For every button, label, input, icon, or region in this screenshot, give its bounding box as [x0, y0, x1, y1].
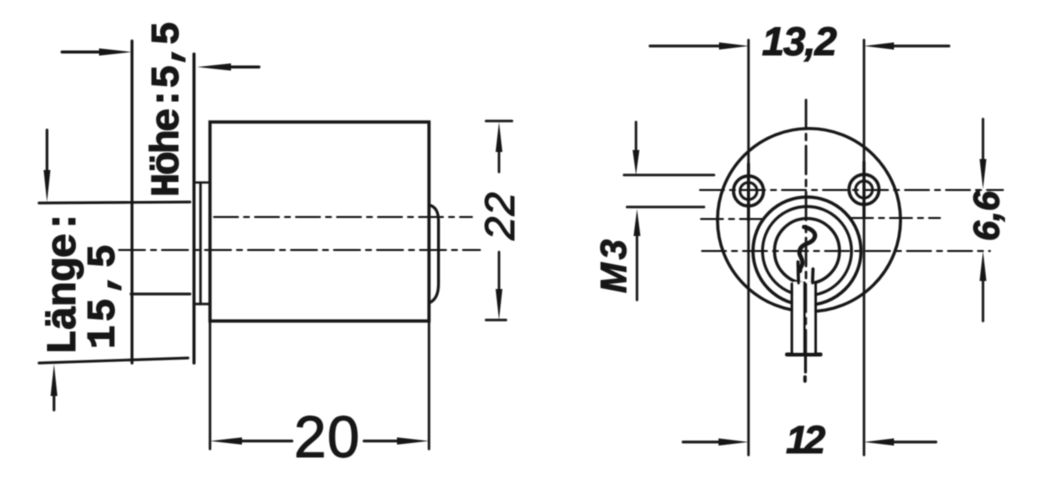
dimension 22 lower arrow — [498, 252, 501, 291]
svg-text:12: 12 — [786, 419, 826, 462]
key tail white mask — [794, 282, 815, 353]
M3 top leader arrow — [635, 122, 638, 152]
dimension 22 upper arrow — [496, 122, 503, 152]
dimension Höhe left arrowhead — [99, 48, 132, 55]
cylinder body outline — [210, 122, 429, 321]
key tail bottom bar — [787, 353, 821, 357]
neck strip left edge — [199, 183, 202, 304]
svg-text:Höhe:5,5: Höhe:5,5 — [146, 23, 191, 197]
plug axis dash-dot line — [119, 249, 480, 251]
svg-text:20: 20 — [294, 405, 361, 470]
key tail right edge — [814, 284, 817, 354]
dimension 13,2 right line — [864, 42, 894, 49]
svg-text:22: 22 — [476, 191, 523, 241]
lock face circle — [718, 129, 901, 312]
dimension Höhe left arrow line — [62, 51, 101, 54]
dimension 12 left line — [683, 441, 721, 444]
plug middle ring — [763, 207, 852, 296]
screw hole left — [734, 176, 764, 206]
neck strip bottom cap — [195, 303, 209, 306]
neck strip top tick — [196, 181, 208, 183]
dimension 6,6 top segment — [982, 119, 985, 161]
13,2/12 right extension line — [863, 40, 866, 455]
plate left edge / Höhe extension line — [131, 41, 134, 363]
M3 bottom tangent line — [627, 206, 704, 209]
screw axis dash-dot line — [700, 189, 1003, 191]
key tail slot line — [803, 283, 806, 353]
screw hole right — [849, 175, 879, 205]
key tail left edge — [791, 284, 794, 354]
keyway slot right lead — [811, 269, 815, 283]
svg-text:M3: M3 — [593, 236, 634, 293]
plate right edge / Höhe extension line — [192, 54, 195, 363]
20-dim right extension line — [428, 321, 431, 449]
dimension 20 right arrowhead — [364, 440, 399, 443]
centerline stub below tail — [804, 356, 807, 372]
svg-text:15,5: 15,5 — [82, 241, 127, 349]
dimension Höhe right arrow line — [228, 66, 259, 69]
dimension 20 left arrowhead — [210, 437, 242, 444]
cylinder axis dash-dot line — [214, 216, 472, 218]
face axis dash-dot right segment — [851, 217, 940, 219]
dimension 12 right line — [864, 438, 894, 445]
13,2/12 left extension line — [747, 40, 750, 455]
dimension 13,2 left line — [650, 45, 721, 48]
Länge bottom extent line — [39, 358, 188, 363]
M3 bottom leader arrow — [634, 209, 641, 236]
face axis dash-dot left segment — [701, 218, 763, 220]
M3 top tangent line — [624, 174, 714, 177]
svg-text:6,6: 6,6 — [966, 190, 1007, 241]
dimension Höhe right arrowhead — [197, 63, 231, 70]
dimension 6,6 bottom segment — [980, 251, 987, 281]
svg-text:Länge:: Länge: — [40, 210, 88, 355]
plug outer ring — [753, 197, 861, 305]
plug inner circle — [775, 219, 840, 284]
vertical centerline dash-dot — [805, 100, 808, 352]
svg-text:13,2: 13,2 — [762, 20, 837, 64]
cam bump on cylinder right edge — [429, 205, 439, 303]
dimension Länge bottom arrow — [51, 364, 58, 396]
keyway slot left lead — [796, 262, 800, 283]
dimension 22 bottom tick — [486, 319, 506, 322]
dimension Länge top arrow — [46, 130, 49, 172]
Länge top extent line — [39, 202, 190, 203]
plate inner horizontal line — [131, 293, 190, 296]
keyway squiggle — [799, 227, 815, 271]
plug axis dash-dot line — [702, 250, 990, 252]
20-dim left extension line — [209, 321, 212, 449]
dimension 22 top tick — [486, 120, 512, 123]
